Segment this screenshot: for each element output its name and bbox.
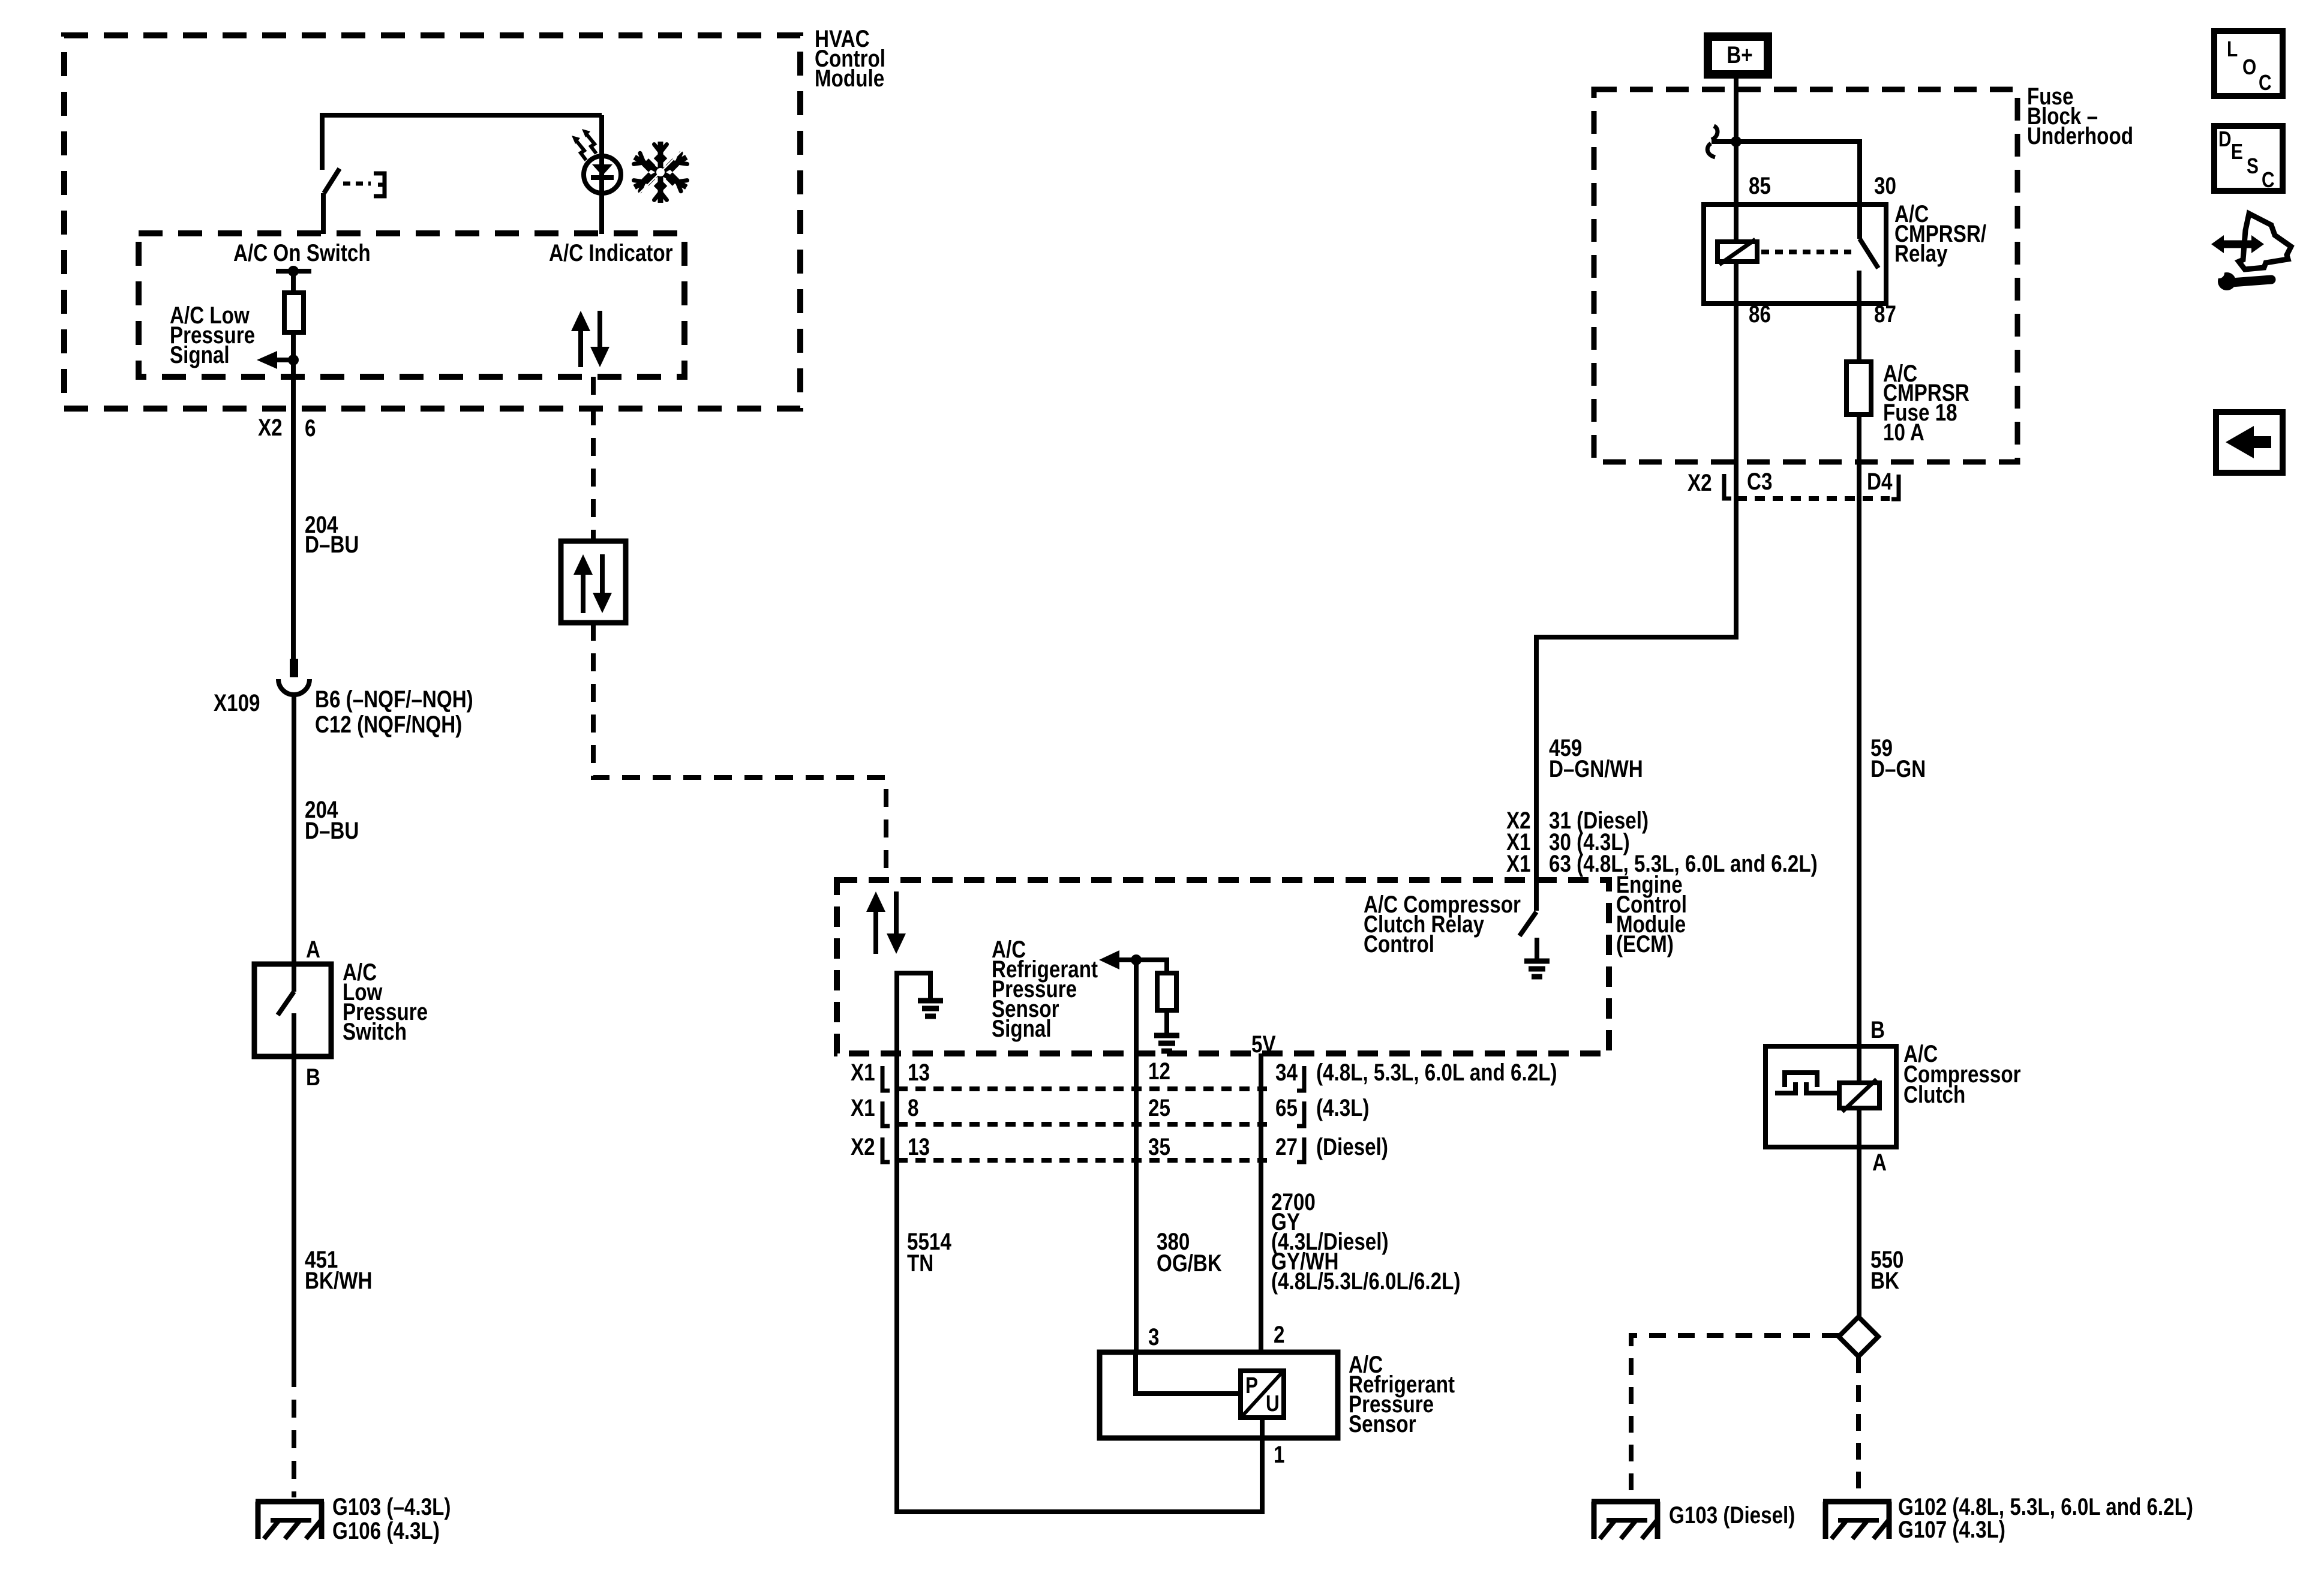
svg-text:Underhood: Underhood xyxy=(2027,122,2133,149)
svg-text:U: U xyxy=(1266,1391,1280,1416)
svg-text:87: 87 xyxy=(1874,301,1896,328)
svg-text:Relay: Relay xyxy=(1894,240,1948,267)
svg-text:34: 34 xyxy=(1275,1059,1298,1086)
svg-text:OG/BK: OG/BK xyxy=(1157,1250,1222,1277)
svg-text:(4.3L): (4.3L) xyxy=(1316,1094,1370,1121)
svg-text:Sensor: Sensor xyxy=(1349,1410,1416,1437)
svg-text:G107 (4.3L): G107 (4.3L) xyxy=(1898,1516,2005,1543)
svg-text:X1: X1 xyxy=(851,1059,875,1086)
svg-text:B+: B+ xyxy=(1727,41,1752,68)
svg-text:G103 (–4.3L): G103 (–4.3L) xyxy=(332,1493,451,1520)
svg-text:B6 (–NQF/–NQH): B6 (–NQF/–NQH) xyxy=(315,686,473,713)
svg-text:35: 35 xyxy=(1148,1133,1170,1160)
svg-text:13: 13 xyxy=(908,1133,930,1160)
svg-text:25: 25 xyxy=(1148,1094,1170,1121)
svg-text:A: A xyxy=(1872,1149,1887,1176)
svg-text:Control: Control xyxy=(1364,930,1434,957)
svg-text:D4: D4 xyxy=(1867,468,1893,495)
svg-text:G106 (4.3L): G106 (4.3L) xyxy=(332,1517,440,1544)
svg-text:D–BU: D–BU xyxy=(305,817,359,844)
svg-text:A/C Indicator: A/C Indicator xyxy=(549,239,673,266)
svg-text:27: 27 xyxy=(1275,1133,1298,1160)
svg-text:X2: X2 xyxy=(1688,469,1712,496)
svg-text:Switch: Switch xyxy=(343,1018,407,1045)
svg-text:Module: Module xyxy=(815,65,884,92)
svg-text:(ECM): (ECM) xyxy=(1616,930,1674,957)
svg-text:63 (4.8L, 5.3L, 6.0L and 6.2L): 63 (4.8L, 5.3L, 6.0L and 6.2L) xyxy=(1549,850,1818,877)
svg-text:X109: X109 xyxy=(214,689,260,716)
svg-text:65: 65 xyxy=(1275,1094,1298,1121)
svg-text:8: 8 xyxy=(908,1094,918,1121)
svg-text:Clutch: Clutch xyxy=(1903,1081,1965,1108)
svg-text:13: 13 xyxy=(908,1059,930,1086)
svg-text:C: C xyxy=(2262,168,2275,192)
svg-text:12: 12 xyxy=(1148,1058,1170,1085)
svg-text:(Diesel): (Diesel) xyxy=(1316,1133,1388,1160)
svg-text:Signal: Signal xyxy=(170,341,230,368)
svg-text:A/C On Switch: A/C On Switch xyxy=(233,239,371,266)
svg-text:3: 3 xyxy=(1148,1323,1159,1350)
svg-text:O: O xyxy=(2242,55,2256,79)
svg-text:S: S xyxy=(2247,154,2259,178)
svg-text:D–BU: D–BU xyxy=(305,531,359,558)
svg-text:A: A xyxy=(306,936,320,963)
svg-text:X2: X2 xyxy=(851,1133,875,1160)
svg-text:2: 2 xyxy=(1274,1321,1284,1348)
svg-text:TN: TN xyxy=(907,1250,933,1277)
svg-text:D: D xyxy=(2218,127,2232,151)
svg-text:L: L xyxy=(2227,37,2238,61)
svg-text:C3: C3 xyxy=(1747,468,1772,495)
svg-text:X2: X2 xyxy=(258,414,283,441)
svg-text:D–GN: D–GN xyxy=(1870,755,1926,782)
svg-text:Signal: Signal xyxy=(992,1015,1052,1042)
svg-text:D–GN/WH: D–GN/WH xyxy=(1549,755,1643,782)
svg-text:BK: BK xyxy=(1870,1267,1899,1294)
svg-text:86: 86 xyxy=(1749,301,1771,328)
svg-text:B: B xyxy=(306,1064,320,1091)
svg-text:85: 85 xyxy=(1749,172,1771,199)
svg-text:6: 6 xyxy=(305,415,316,442)
svg-text:E: E xyxy=(2231,140,2243,164)
svg-text:(4.8L, 5.3L, 6.0L and 6.2L): (4.8L, 5.3L, 6.0L and 6.2L) xyxy=(1316,1059,1557,1086)
svg-text:X1: X1 xyxy=(1506,850,1531,877)
svg-text:C12 (NQF/NQH): C12 (NQF/NQH) xyxy=(315,711,462,738)
svg-text:B: B xyxy=(1870,1016,1885,1043)
svg-text:P: P xyxy=(1245,1373,1258,1398)
svg-text:C: C xyxy=(2259,71,2272,95)
svg-text:1: 1 xyxy=(1274,1441,1284,1468)
svg-text:G103 (Diesel): G103 (Diesel) xyxy=(1669,1502,1795,1529)
svg-text:(4.8L/5.3L/6.0L/6.2L): (4.8L/5.3L/6.0L/6.2L) xyxy=(1271,1268,1460,1295)
svg-text:BK/WH: BK/WH xyxy=(305,1267,372,1294)
svg-text:X1: X1 xyxy=(851,1094,875,1121)
svg-text:30: 30 xyxy=(1874,172,1896,199)
svg-text:5V: 5V xyxy=(1251,1031,1276,1058)
svg-text:10 A: 10 A xyxy=(1883,419,1924,446)
